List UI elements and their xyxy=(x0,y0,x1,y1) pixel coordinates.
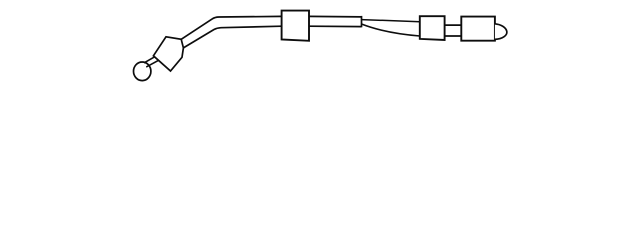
housing clamp block (first rectangle) xyxy=(282,11,309,41)
upper housing line (diagonal, bend, gentle slope to clamp) xyxy=(181,16,281,39)
lower housing line (diagonal, bend, gentle slope to clamp) xyxy=(183,26,281,48)
housing end cap with step xyxy=(361,16,363,27)
housing bottom line right of clamp xyxy=(309,25,362,27)
stem link between ring and end fitting xyxy=(145,56,159,67)
connector link lower line xyxy=(445,35,461,37)
cable eyelet ring (left end) xyxy=(134,62,151,81)
connector link upper line xyxy=(445,24,461,26)
end housing barrel (third rectangle) xyxy=(461,17,495,41)
inner cable lower strand (flattening curve) xyxy=(362,24,420,36)
rounded end cap (dome) xyxy=(495,24,507,40)
inner cable upper strand xyxy=(362,20,420,22)
housing top line right of clamp xyxy=(309,15,362,18)
cable end fitting (hex block) xyxy=(153,37,183,71)
cable adjuster (second rectangle) xyxy=(420,16,445,40)
